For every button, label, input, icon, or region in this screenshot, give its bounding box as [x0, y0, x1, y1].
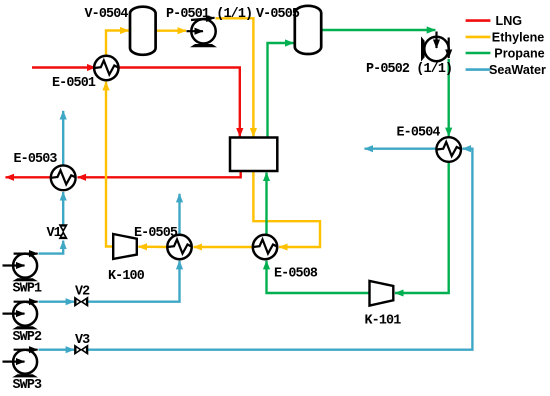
- svg-text:SWP1: SWP1: [13, 282, 43, 297]
- svg-text:V1: V1: [47, 226, 62, 241]
- cold box main LNG exchanger: [230, 138, 277, 172]
- wire ethylene E-0501 to V-0504: [106, 31, 129, 57]
- heat exchanger E-0501: [94, 56, 118, 80]
- wire seawater SWP2 to V2: [39, 301, 75, 303]
- svg-text:E-0501: E-0501: [52, 76, 96, 91]
- valve V2: [75, 297, 88, 306]
- valve V3: [75, 345, 88, 354]
- wire ethylene P-0501 discharge to cold box top: [216, 18, 254, 136]
- svg-text:E-0504: E-0504: [397, 126, 441, 141]
- wire seawater V3 to E-0504: [88, 149, 472, 350]
- svg-text:E-0505: E-0505: [134, 226, 178, 241]
- svg-text:SWP3: SWP3: [13, 378, 43, 393]
- svg-text:SeaWater: SeaWater: [489, 63, 546, 77]
- svg-text:V2: V2: [75, 285, 90, 300]
- wire LNG feed into E-0501: [32, 66, 96, 68]
- valve V1: [59, 225, 67, 239]
- wire propane V-0505 to P-0502 suction: [321, 29, 435, 31]
- wire ethylene cold box bottom to E-0508: [253, 171, 320, 248]
- wire LNG from E-0501 to cold box top: [119, 68, 240, 137]
- wire ethylene V-0504 to P-0501 suction: [156, 30, 186, 32]
- pump SWP2: [3, 302, 39, 330]
- legend Propane swatch: [466, 52, 491, 55]
- svg-text:E-0503: E-0503: [14, 152, 58, 167]
- heat exchanger E-0508: [253, 235, 277, 259]
- vessel V-0505: [295, 6, 321, 54]
- wire propane cold box top to V-0505: [268, 43, 294, 137]
- heat exchanger E-0504: [436, 137, 461, 162]
- svg-text:E-0508: E-0508: [274, 267, 318, 282]
- wire propane P-0502 discharge to E-0504: [448, 59, 450, 136]
- vessel V-0504: [130, 7, 156, 55]
- legend LNG swatch: [466, 19, 491, 22]
- wire seawater E-0504 outlet: [365, 147, 437, 149]
- pump P-0502: [421, 32, 449, 62]
- svg-text:K-100: K-100: [108, 269, 145, 284]
- svg-text:Ethylene: Ethylene: [492, 30, 545, 44]
- wire ethylene K-100 discharge to E-0501: [106, 82, 114, 247]
- wire ethylene E-0508 to E-0505: [194, 246, 253, 248]
- legend SeaWater swatch: [466, 68, 491, 71]
- pump SWP3: [3, 350, 39, 378]
- svg-text:P-0501 (1/1): P-0501 (1/1): [166, 7, 252, 22]
- wire ethylene E-0505 to K-100 suction: [138, 245, 167, 248]
- svg-text:V-0505: V-0505: [256, 7, 300, 22]
- wire propane K-101 discharge to E-0508: [267, 261, 370, 293]
- svg-text:P-0502 (1/1): P-0502 (1/1): [366, 62, 452, 77]
- wire propane E-0504 to K-101 suction: [395, 162, 449, 293]
- svg-text:Propane: Propane: [494, 47, 544, 61]
- compressor K-100: [113, 234, 137, 259]
- wire LNG product out of E-0503: [6, 176, 51, 178]
- heat exchanger E-0505: [167, 235, 191, 259]
- pump P-0501: [187, 18, 218, 48]
- wire seawater V1 to E-0503: [62, 192, 64, 225]
- wire seawater SWP1 to V1: [39, 241, 64, 254]
- wire propane E-0508 to cold box bottom: [265, 173, 267, 235]
- svg-text:V3: V3: [75, 333, 90, 348]
- svg-text:V-0504: V-0504: [85, 7, 129, 22]
- wire seawater V2 to E-0505: [88, 261, 180, 302]
- wire LNG from cold box bottom to E-0503: [78, 171, 241, 178]
- compressor K-101: [370, 281, 394, 306]
- wire seawater E-0503 outlet vent: [62, 111, 64, 166]
- wire seawater SWP3 to V3: [39, 349, 75, 351]
- svg-text:SWP2: SWP2: [13, 330, 43, 345]
- wire seawater E-0505 outlet vent: [178, 194, 180, 235]
- pump SWP1: [3, 254, 39, 282]
- svg-text:LNG: LNG: [496, 14, 523, 28]
- heat exchanger E-0503: [51, 165, 76, 190]
- svg-text:K-101: K-101: [365, 314, 402, 329]
- legend Ethylene swatch: [466, 36, 491, 39]
